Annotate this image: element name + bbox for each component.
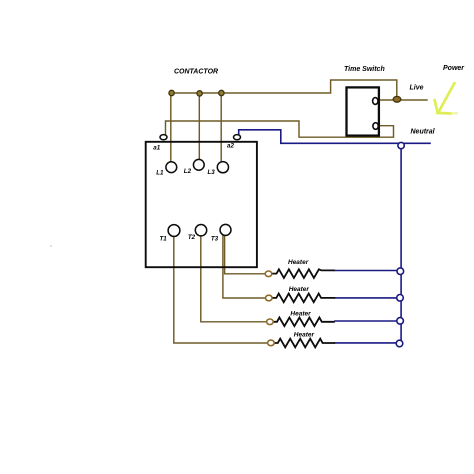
- svg-text:Live: Live: [410, 85, 424, 92]
- svg-text:L3: L3: [208, 169, 216, 176]
- svg-text:L2: L2: [184, 168, 192, 175]
- svg-text:T3: T3: [211, 235, 219, 242]
- svg-text:a2: a2: [227, 143, 234, 150]
- svg-text:T1: T1: [160, 235, 168, 242]
- svg-text:Heater: Heater: [289, 286, 310, 293]
- svg-text:CONTACTOR: CONTACTOR: [174, 69, 218, 76]
- svg-text:L1: L1: [156, 170, 164, 177]
- svg-text:Heater: Heater: [290, 310, 311, 317]
- svg-text:Neutral: Neutral: [411, 129, 436, 136]
- svg-text:Time Switch: Time Switch: [344, 66, 385, 73]
- svg-text:Power: Power: [443, 65, 465, 72]
- svg-text:a1: a1: [153, 145, 160, 152]
- svg-text:Heater: Heater: [288, 259, 309, 266]
- svg-text:T2: T2: [188, 234, 196, 241]
- svg-text:Heater: Heater: [294, 332, 315, 339]
